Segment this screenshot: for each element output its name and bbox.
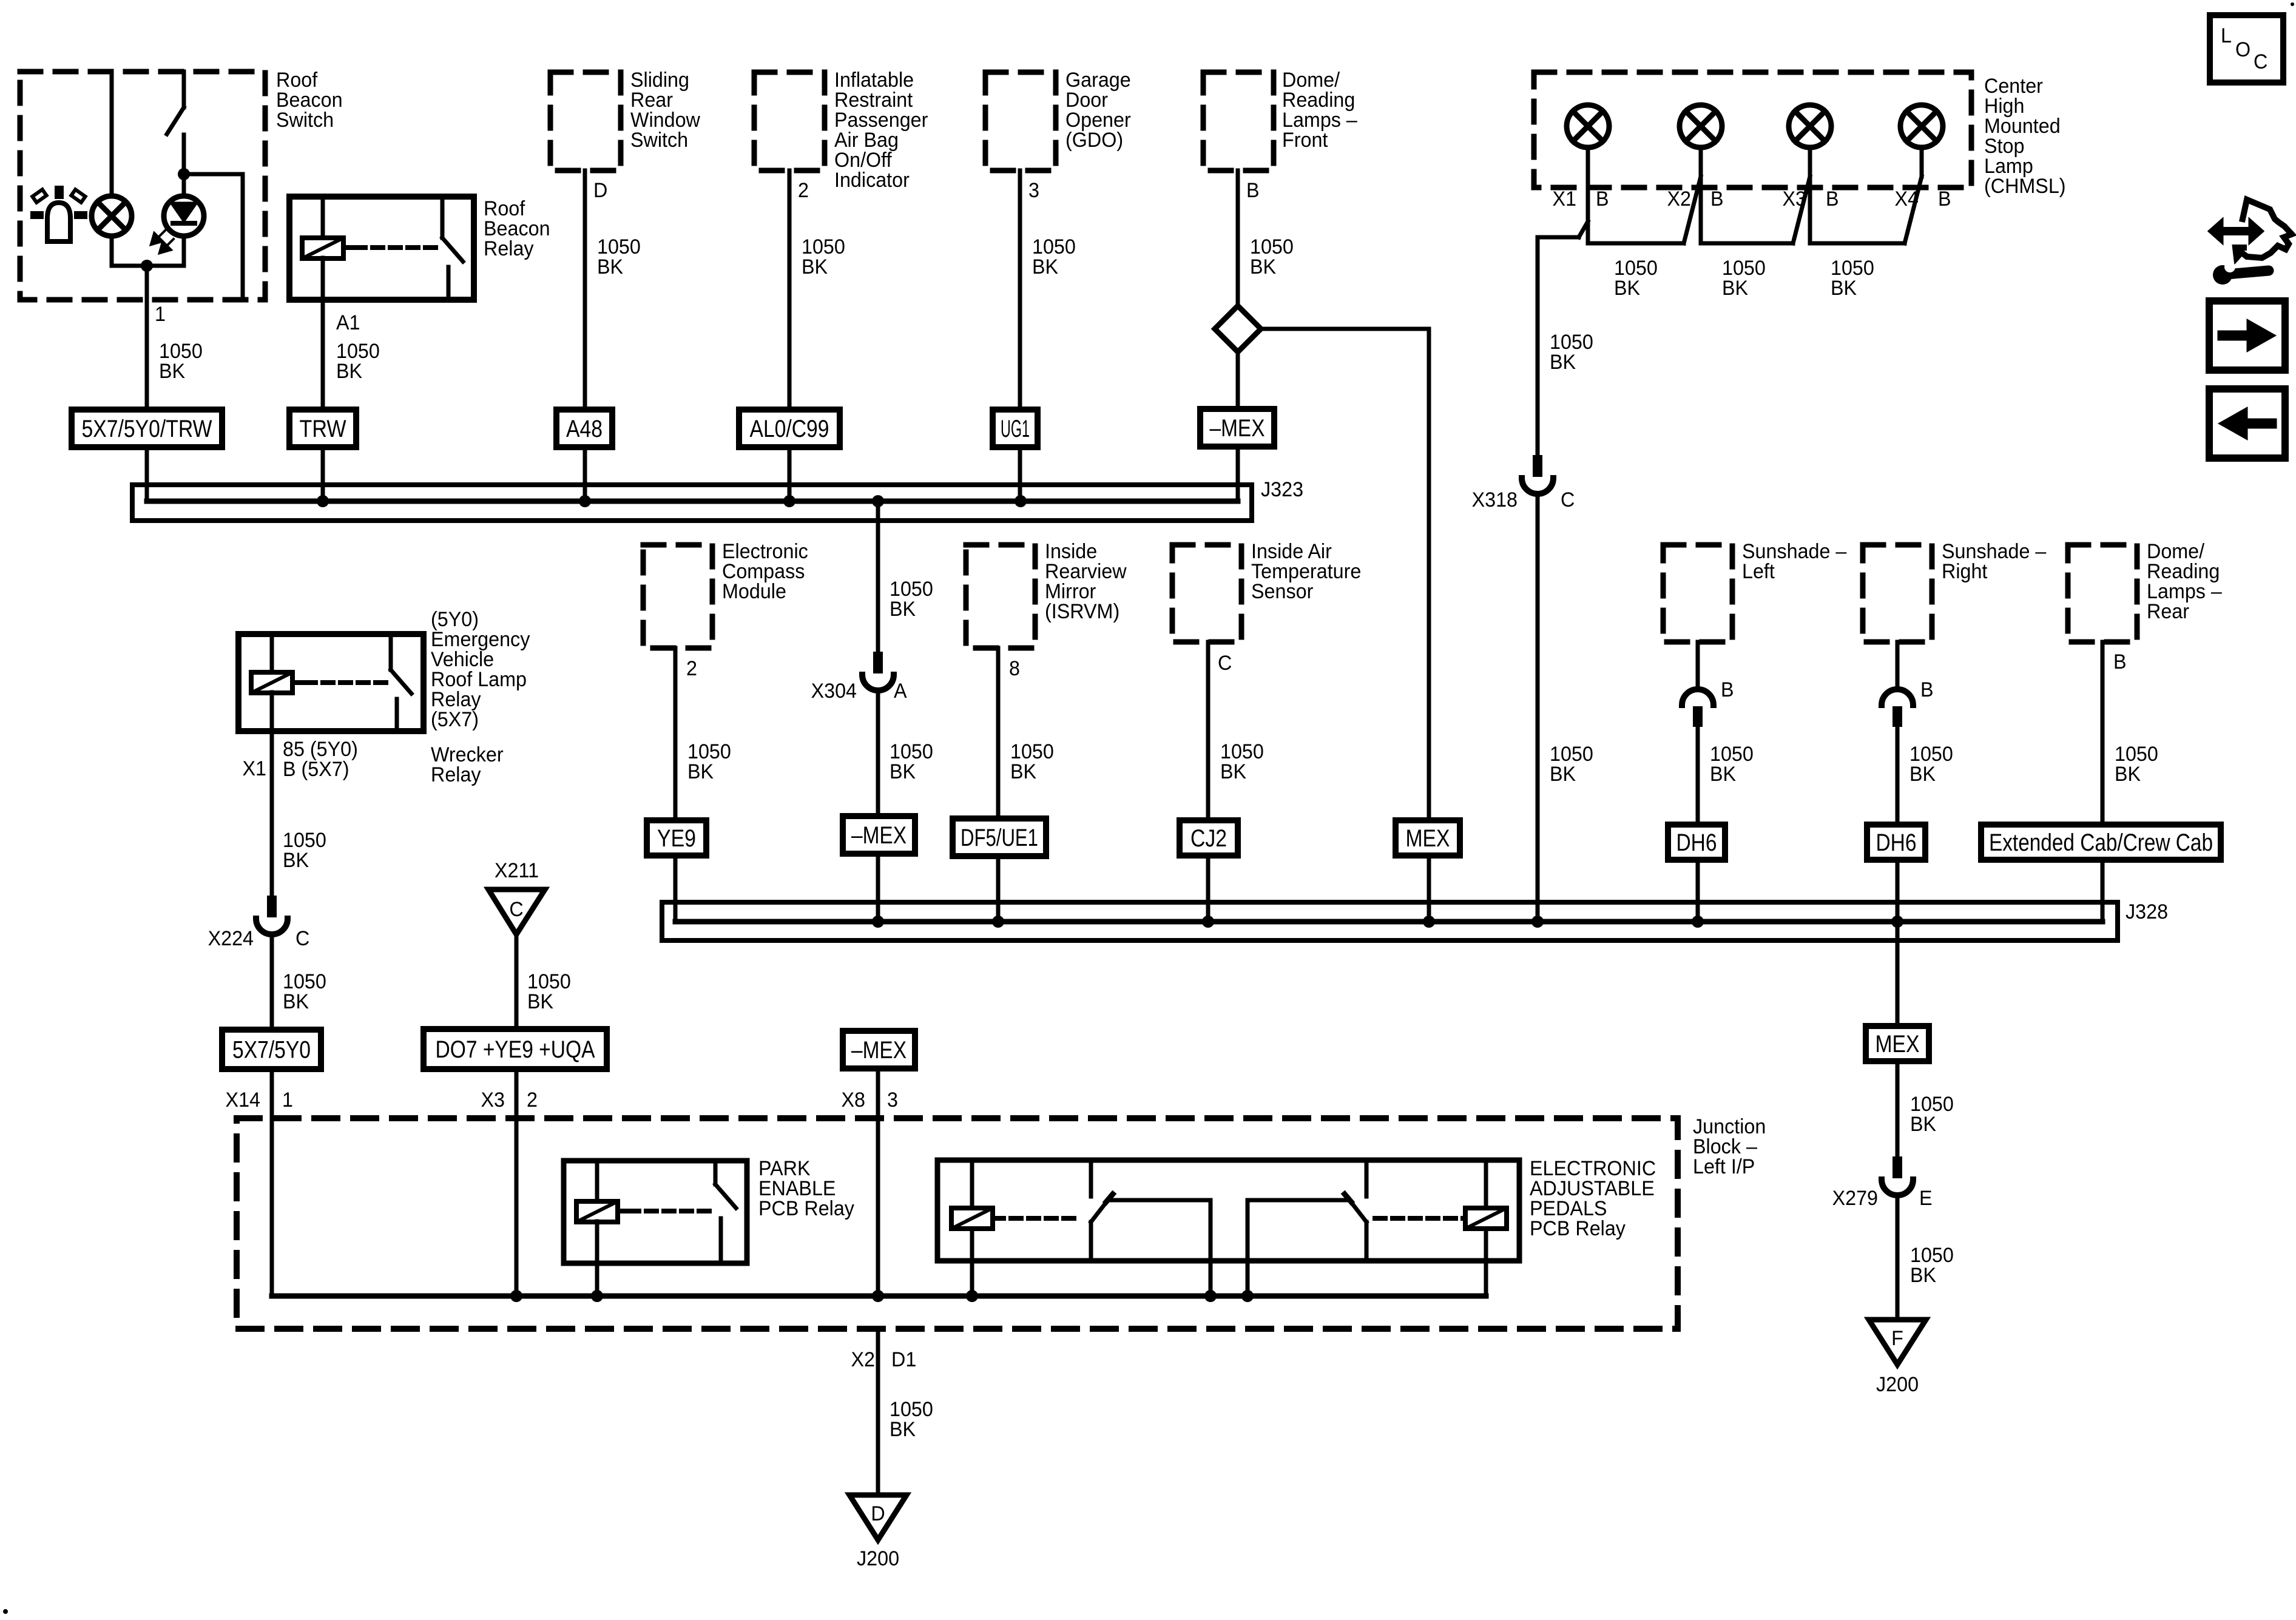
- svg-text:BK: BK: [802, 255, 828, 278]
- svg-text:(ISRVM): (ISRVM): [1045, 600, 1119, 623]
- svg-text:2: 2: [527, 1088, 538, 1112]
- svg-text:PCB Relay: PCB Relay: [1530, 1217, 1626, 1240]
- svg-text:X211: X211: [495, 859, 539, 882]
- svg-text:B: B: [1596, 187, 1609, 211]
- svg-text:–MEX: –MEX: [851, 1037, 907, 1064]
- svg-text:X1: X1: [1552, 187, 1576, 211]
- svg-text:X2: X2: [851, 1348, 875, 1371]
- svg-text:BK: BK: [890, 598, 916, 621]
- svg-text:Relay: Relay: [484, 237, 534, 260]
- svg-text:BK: BK: [890, 760, 916, 783]
- svg-text:(5X7): (5X7): [431, 708, 479, 731]
- svg-text:BK: BK: [336, 360, 362, 383]
- svg-text:BK: BK: [687, 760, 714, 783]
- svg-text:Right: Right: [1942, 560, 1987, 583]
- svg-text:YE9: YE9: [657, 825, 696, 852]
- svg-text:C: C: [295, 927, 309, 950]
- svg-text:BK: BK: [1722, 277, 1748, 300]
- svg-text:B: B: [1721, 678, 1734, 701]
- svg-text:–MEX: –MEX: [851, 822, 907, 849]
- svg-text:J328: J328: [2125, 900, 2168, 923]
- svg-text:D: D: [871, 1502, 885, 1525]
- svg-text:E: E: [1919, 1187, 1933, 1210]
- svg-text:J200: J200: [1876, 1373, 1919, 1396]
- svg-text:DH6: DH6: [1676, 829, 1717, 856]
- svg-text:X3: X3: [1782, 187, 1806, 211]
- svg-text:5X7/5Y0: 5X7/5Y0: [232, 1037, 311, 1064]
- svg-text:CJ2: CJ2: [1190, 825, 1227, 852]
- svg-text:1: 1: [282, 1088, 293, 1112]
- svg-text:BK: BK: [283, 990, 309, 1013]
- svg-text:BK: BK: [1831, 277, 1857, 300]
- svg-text:C: C: [1561, 488, 1575, 511]
- svg-text:BK: BK: [1910, 1113, 1936, 1136]
- svg-text:BK: BK: [597, 255, 623, 278]
- svg-text:(CHMSL): (CHMSL): [1984, 175, 2066, 198]
- svg-text:1: 1: [155, 303, 166, 326]
- svg-text:PCB Relay: PCB Relay: [758, 1197, 854, 1220]
- svg-text:X304: X304: [811, 680, 857, 703]
- svg-text:BK: BK: [890, 1418, 916, 1441]
- svg-text:Left: Left: [1742, 560, 1775, 583]
- svg-text:D1: D1: [891, 1348, 916, 1371]
- svg-text:UG1: UG1: [1001, 416, 1030, 442]
- svg-text:BK: BK: [1710, 763, 1736, 786]
- svg-text:BK: BK: [1550, 351, 1576, 374]
- svg-text:Left I/P: Left I/P: [1693, 1155, 1755, 1178]
- svg-text:B: B: [2113, 650, 2127, 673]
- svg-text:BK: BK: [1250, 255, 1276, 278]
- svg-text:–MEX: –MEX: [1210, 415, 1265, 442]
- svg-text:C: C: [2254, 50, 2267, 73]
- svg-text:DF5/UE1: DF5/UE1: [961, 825, 1038, 851]
- svg-text:X2: X2: [1667, 187, 1691, 211]
- svg-text:BK: BK: [2115, 763, 2141, 786]
- svg-text:MEX: MEX: [1876, 1031, 1920, 1058]
- svg-text:B: B: [1826, 187, 1839, 211]
- svg-text:F: F: [1891, 1327, 1903, 1350]
- svg-text:BK: BK: [1220, 760, 1246, 783]
- svg-text:BK: BK: [527, 990, 553, 1013]
- svg-text:BK: BK: [159, 360, 185, 383]
- svg-text:B: B: [1246, 179, 1260, 202]
- svg-text:BK: BK: [1550, 763, 1576, 786]
- svg-text:X14: X14: [226, 1088, 260, 1112]
- svg-text:X4: X4: [1894, 187, 1919, 211]
- svg-text:BK: BK: [1910, 1264, 1936, 1287]
- svg-text:X3: X3: [481, 1088, 505, 1112]
- svg-text:AL0/C99: AL0/C99: [750, 416, 829, 442]
- svg-text:A1: A1: [336, 311, 360, 334]
- svg-text:A: A: [894, 680, 907, 703]
- svg-text:Rear: Rear: [2147, 600, 2189, 623]
- svg-text:X8: X8: [841, 1088, 865, 1112]
- svg-text:Sensor: Sensor: [1251, 580, 1313, 603]
- svg-text:DO7 +YE9 +UQA: DO7 +YE9 +UQA: [436, 1036, 595, 1063]
- svg-text:Relay: Relay: [431, 763, 481, 786]
- svg-text:BK: BK: [1614, 277, 1640, 300]
- svg-text:BK: BK: [283, 849, 309, 872]
- svg-text:X224: X224: [208, 927, 254, 950]
- svg-text:X318: X318: [1472, 488, 1518, 511]
- svg-text:B: B: [1938, 187, 1951, 211]
- svg-text:2: 2: [798, 179, 809, 202]
- svg-text:J323: J323: [1261, 478, 1303, 501]
- svg-text:BK: BK: [1032, 255, 1058, 278]
- svg-text:2: 2: [686, 657, 697, 680]
- svg-text:Front: Front: [1282, 129, 1328, 152]
- svg-text:3: 3: [1028, 179, 1039, 202]
- svg-text:X279: X279: [1832, 1187, 1878, 1210]
- svg-text:Indicator: Indicator: [834, 169, 910, 192]
- svg-text:(GDO): (GDO): [1065, 129, 1123, 152]
- svg-text:C: C: [1218, 652, 1232, 675]
- svg-text:Switch: Switch: [630, 129, 688, 152]
- svg-text:Switch: Switch: [276, 109, 334, 132]
- svg-text:B: B: [1710, 187, 1724, 211]
- svg-text:J200: J200: [857, 1547, 899, 1570]
- svg-text:Module: Module: [722, 580, 786, 603]
- svg-text:DH6: DH6: [1876, 829, 1917, 856]
- svg-text:8: 8: [1009, 657, 1020, 680]
- svg-text:BK: BK: [1010, 760, 1036, 783]
- svg-text:B (5X7): B (5X7): [283, 758, 349, 781]
- svg-text:TRW: TRW: [300, 416, 346, 442]
- svg-text:D: D: [593, 179, 607, 202]
- svg-text:X1: X1: [242, 757, 266, 780]
- svg-text:BK: BK: [1909, 763, 1936, 786]
- svg-text:MEX: MEX: [1406, 825, 1450, 852]
- svg-text:Extended Cab/Crew Cab: Extended Cab/Crew Cab: [1989, 829, 2213, 856]
- svg-text:3: 3: [887, 1088, 898, 1112]
- svg-text:L: L: [2221, 24, 2232, 47]
- svg-text:C: C: [509, 898, 523, 921]
- svg-text:B: B: [1920, 678, 1934, 701]
- svg-text:A48: A48: [566, 416, 603, 442]
- svg-text:O: O: [2235, 38, 2250, 61]
- svg-text:5X7/5Y0/TRW: 5X7/5Y0/TRW: [82, 416, 212, 442]
